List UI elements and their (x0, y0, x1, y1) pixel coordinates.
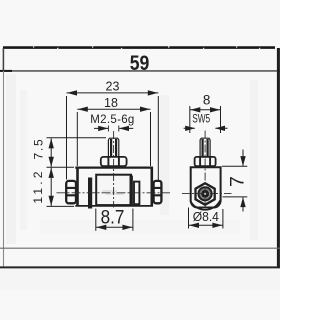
side vertical centerline (204, 131, 206, 211)
svg-text:23: 23 (106, 79, 120, 93)
left page border (3, 48, 5, 268)
top cut dashed rule (3, 46, 275, 49)
front left washer (88, 178, 92, 209)
front collar nut (101, 157, 127, 166)
svg-text:8: 8 (203, 92, 211, 107)
svg-text:11.2: 11.2 (31, 168, 45, 203)
side axle end (199, 188, 212, 201)
header bottom rule (0, 70, 280, 72)
front vertical centerline (113, 131, 115, 208)
dimension 18 (77, 107, 150, 167)
dimension 23 (67, 90, 159, 180)
dimension 8 (190, 106, 221, 133)
front roller (96, 175, 133, 205)
svg-text:59: 59 (130, 52, 150, 76)
side roller circle (190, 201, 220, 210)
front left hex nut (66, 181, 76, 203)
svg-text:8.7: 8.7 (101, 207, 125, 228)
front right washer (134, 182, 139, 205)
bottom thin rule (0, 247, 280, 249)
SW5 leaders (184, 126, 228, 131)
svg-text:SW5: SW5 (192, 113, 210, 126)
dimension 7 (222, 150, 247, 212)
right page border (277, 48, 280, 268)
svg-text:M2.5-6g: M2.5-6g (90, 114, 134, 126)
side axle pinhole (204, 193, 206, 195)
dimension 7.5 (47, 138, 107, 168)
side hex nut face (196, 183, 215, 205)
dimension 8.7 (96, 209, 133, 231)
front bracket yoke (75, 167, 153, 206)
bottom dark rule (0, 266, 280, 268)
dimension 11.2 (47, 168, 75, 207)
front right hex nut (154, 181, 162, 203)
thread leaders (94, 126, 133, 132)
side threaded stud (200, 138, 210, 157)
dimension dia 8.4 (189, 208, 223, 229)
svg-text:7: 7 (227, 176, 249, 187)
svg-text:18: 18 (104, 96, 118, 110)
front axle horizontal centerline (57, 192, 171, 194)
svg-text:7.5: 7.5 (32, 137, 46, 159)
side body (191, 166, 221, 207)
side horizontal centerline (182, 193, 232, 195)
front threaded stud M2.5 (108, 138, 118, 157)
svg-text:Ø8.4: Ø8.4 (193, 210, 219, 224)
side collar hex (195, 157, 216, 166)
